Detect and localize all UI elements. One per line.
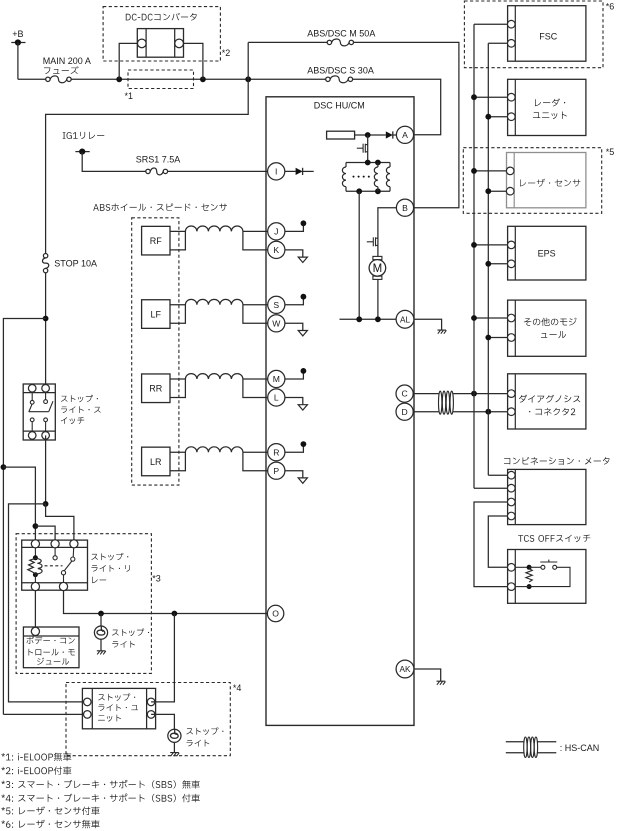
wire other modules pin2 bbox=[488, 337, 507, 339]
svg-text:*1: *1 bbox=[125, 91, 134, 101]
svg-text:M: M bbox=[273, 374, 280, 384]
diagnosis connector 2 box bbox=[508, 374, 586, 429]
stop light switch levers and linkage bbox=[29, 404, 32, 412]
wire unit right pin1 up to O net bbox=[151, 614, 174, 702]
twisted pair symbol HS-CAN bbox=[439, 391, 442, 414]
sensor LR twisted pair coil bbox=[185, 447, 243, 452]
wire motor to AL row bbox=[377, 279, 379, 319]
wire comb meter pin1 from CAN-L bus bbox=[488, 474, 507, 476]
wire other modules pin1 bbox=[474, 317, 508, 319]
internal ground stub after pin K bbox=[276, 250, 303, 257]
pin D bbox=[396, 403, 413, 420]
footnote *2 bbox=[1, 766, 71, 774]
wire comb meter pin2 from CAN-H bus bbox=[474, 487, 508, 489]
wire laser pin1 bbox=[474, 170, 507, 172]
junction dot below switch bbox=[43, 501, 49, 507]
dashed box wheel speed sensors bbox=[132, 218, 179, 485]
internal ground stub after pin L bbox=[276, 398, 303, 405]
junction dot left rail branch bbox=[43, 316, 49, 322]
svg-text:AL: AL bbox=[400, 315, 410, 324]
pin B bbox=[396, 199, 413, 216]
svg-text:MAIN 200 A: MAIN 200 A bbox=[43, 56, 91, 66]
svg-text:K: K bbox=[273, 245, 279, 255]
wire M50A branch up bbox=[247, 42, 249, 79]
mosfet Q1 bbox=[367, 135, 369, 163]
pin W bbox=[268, 315, 285, 332]
junction dot main bus / M50A branch bbox=[245, 76, 251, 82]
sensor RF box bbox=[142, 226, 170, 255]
junction dot outer rail relay coil branch bbox=[1, 464, 7, 470]
wire pin C to twisted pair bbox=[413, 393, 439, 395]
svg-text:AK: AK bbox=[400, 665, 411, 674]
wire pin D to twisted pair bbox=[413, 411, 439, 413]
svg-text:+B: +B bbox=[12, 29, 23, 39]
label combination meter bbox=[504, 457, 609, 465]
svg-text:J: J bbox=[274, 227, 278, 237]
sensor LF box bbox=[142, 300, 170, 329]
junction dot relay pin2 branch bbox=[33, 523, 39, 529]
wire radar pin2 bbox=[488, 116, 507, 118]
footnote *6 bbox=[1, 820, 99, 829]
svg-text:STOP 10A: STOP 10A bbox=[54, 259, 97, 269]
wire unit right pin2 to lamp LP2 bbox=[151, 714, 174, 729]
svg-text:B: B bbox=[402, 203, 408, 213]
wire +B down to main bus bbox=[17, 43, 19, 80]
wire M50A fuse to pin B bbox=[354, 42, 459, 207]
wire switched rail to stop light unit pin1 bbox=[9, 504, 88, 702]
sensor RF twisted pair coil bbox=[185, 226, 243, 231]
svg-text:P: P bbox=[273, 466, 279, 476]
junction dot A row bbox=[365, 132, 371, 138]
internal pull-up stub after pin M bbox=[276, 372, 303, 379]
wire radar pin1 bbox=[474, 96, 508, 98]
dashed box *5 bbox=[463, 148, 601, 214]
wire FSC pin1 bbox=[474, 23, 508, 25]
svg-text:R: R bbox=[273, 447, 279, 457]
svg-text:S: S bbox=[273, 300, 279, 310]
stop light relay K1 box bbox=[22, 540, 88, 590]
wire laser pin2 bbox=[488, 190, 506, 192]
svg-text:M: M bbox=[373, 263, 383, 275]
pin O bbox=[267, 605, 283, 621]
pin M bbox=[268, 370, 285, 387]
svg-text:DSC HU/CM: DSC HU/CM bbox=[314, 101, 365, 111]
body control module box bbox=[23, 627, 79, 668]
svg-text:W: W bbox=[272, 318, 281, 328]
chassis ground below lamp LP1 bbox=[97, 651, 106, 655]
junction dot DC-DC left tap bbox=[116, 76, 122, 82]
bus segment comb meter pin3 to TCS pin2 bbox=[474, 502, 508, 587]
pin A bbox=[396, 126, 413, 143]
relay coil with parallel resistor bbox=[34, 548, 36, 558]
chassis ground below lamp LP2 bbox=[170, 753, 179, 757]
bus segment comb meter pin4 to TCS pin1 bbox=[488, 516, 507, 567]
wire DC-DC converter branch right bbox=[184, 43, 203, 79]
svg-text:*6: *6 bbox=[606, 1, 615, 11]
internal ground stub after pin P bbox=[276, 471, 303, 478]
footnote *4 bbox=[1, 794, 199, 803]
svg-text:C: C bbox=[401, 389, 407, 399]
sensor RF connector loop bbox=[170, 231, 185, 250]
pin R bbox=[268, 444, 285, 461]
diode D2 to pin A bbox=[386, 131, 393, 138]
TCS OFF switch box bbox=[508, 550, 586, 604]
wire rect to diode bbox=[355, 134, 386, 136]
sensor RR twisted pair coil bbox=[185, 374, 243, 379]
wire main bus to ABS/DSC S fuse bbox=[71, 78, 325, 80]
svg-text:*3: *3 bbox=[152, 574, 161, 584]
junction dot CAN-H bus bbox=[471, 391, 477, 397]
sensor RF wires to pins J K bbox=[243, 230, 276, 232]
stop light unit box bbox=[82, 688, 155, 728]
internal diode after pin I bbox=[276, 170, 295, 172]
internal pull-up stub after pin S bbox=[276, 298, 303, 305]
internal ground stub after pin W bbox=[276, 323, 303, 330]
wire relay output to pin O bbox=[64, 590, 276, 613]
pin S bbox=[268, 296, 285, 313]
svg-text:O: O bbox=[272, 609, 279, 619]
sensor LF wires to pins S W bbox=[243, 304, 276, 306]
wire FSC pin2 bbox=[488, 42, 507, 44]
sensor LR wires to pins R P bbox=[243, 451, 276, 453]
mosfet Q2 bbox=[377, 228, 379, 257]
junction dot stop light branch bbox=[98, 611, 104, 617]
fuse ABS/DSC S 30A bbox=[326, 77, 330, 81]
pin P bbox=[268, 462, 285, 479]
radar unit box bbox=[508, 79, 586, 135]
fuse STOP 10A bbox=[43, 254, 47, 258]
wire EPS pin1 bbox=[474, 244, 508, 246]
wire below stop light switch bbox=[45, 435, 47, 504]
laser sensor box (gray) bbox=[507, 153, 586, 208]
svg-text:ABS/DSC M 50A: ABS/DSC M 50A bbox=[307, 29, 375, 39]
svg-text:FSC: FSC bbox=[539, 31, 558, 41]
wire EPS pin2 bbox=[488, 263, 507, 265]
pin I bbox=[268, 163, 285, 180]
footnote *3 bbox=[1, 780, 199, 789]
wire SRS1 fuse to pin I bbox=[168, 170, 277, 172]
ground symbol (open triangle) P bbox=[298, 478, 307, 483]
wire outer rail to relay coil pin1 bbox=[3, 467, 35, 544]
wire IG1 to SRS1 fuse bbox=[82, 152, 146, 172]
internal pull-up stub after pin J bbox=[276, 224, 303, 231]
stop light lamp LP2 bbox=[168, 729, 181, 742]
sensor LR connector loop bbox=[170, 452, 185, 471]
ground symbol (open triangle) K bbox=[298, 257, 307, 262]
pin K bbox=[268, 241, 285, 258]
internal pull-up stub after pin R bbox=[276, 445, 303, 452]
svg-text:RF: RF bbox=[150, 236, 162, 246]
sensor LR box bbox=[142, 447, 170, 476]
pin AK bbox=[396, 660, 414, 678]
pump motor M1 bbox=[373, 256, 382, 259]
TCS push switch bbox=[529, 566, 541, 568]
DSC HU/CM control module box bbox=[266, 97, 414, 726]
solenoid valve bank bbox=[346, 162, 390, 164]
svg-text:A: A bbox=[402, 130, 408, 140]
ellipsis dots in valve bank bbox=[353, 176, 355, 178]
junction dot DC-DC right tap bbox=[200, 76, 206, 82]
IG1 relay tap bbox=[75, 151, 89, 153]
label TCS OFF switch bbox=[518, 535, 590, 543]
dashed box stop light relay *3 bbox=[16, 534, 151, 674]
wire branch to outer left rail bbox=[3, 319, 45, 715]
footnote *1 bbox=[1, 753, 71, 762]
pin L bbox=[268, 389, 285, 406]
wire pin AL to chassis ground bbox=[414, 319, 442, 330]
svg-text:L: L bbox=[274, 393, 279, 403]
svg-text:EPS: EPS bbox=[538, 248, 556, 258]
DC-DC converter component U1 bbox=[137, 29, 183, 58]
FSC module box bbox=[508, 6, 586, 62]
other modules box bbox=[508, 300, 586, 356]
power source +B terminal bbox=[11, 42, 25, 44]
wire CAN-L to diagnosis connector bbox=[453, 411, 507, 413]
relay linkage (dashed) bbox=[45, 565, 63, 567]
pin J bbox=[268, 223, 285, 240]
HS-CAN legend twisted pair bbox=[506, 741, 524, 743]
dashed box DC-DC converter *2 bbox=[103, 7, 220, 61]
svg-text:*5: *5 bbox=[606, 147, 615, 157]
fuse SRS1 7.5A bbox=[146, 169, 150, 173]
pin AL bbox=[396, 310, 414, 328]
ground symbol (open triangle) L bbox=[298, 405, 307, 410]
wire pin B to motor branch bbox=[378, 208, 405, 228]
svg-text:SRS1 7.5A: SRS1 7.5A bbox=[136, 154, 181, 164]
junction dot CAN-L bus bbox=[485, 409, 491, 415]
wire valve bank to AL row bbox=[358, 191, 360, 319]
junction dot stop light unit branch bbox=[172, 611, 178, 617]
label ABS wheel speed sensor bbox=[93, 203, 227, 211]
svg-text:*2: *2 bbox=[222, 48, 231, 58]
dashed box stop light unit *4 bbox=[66, 683, 230, 756]
wire outer rail to stop light unit pin2 bbox=[3, 713, 87, 715]
svg-text:D: D bbox=[401, 407, 407, 417]
sensor LF twisted pair coil bbox=[185, 299, 243, 304]
svg-text:: HS-CAN: : HS-CAN bbox=[560, 743, 600, 753]
wire main bus down to left rail bbox=[46, 79, 249, 253]
wire to relay pin2 bbox=[35, 526, 55, 544]
fuse ABS/DSC M 50A bbox=[248, 41, 327, 43]
dashed option box *1 bbox=[128, 70, 194, 89]
wire DC-DC converter branch left bbox=[119, 43, 137, 79]
dashed box *6 bbox=[464, 1, 603, 68]
sensor RR connector loop bbox=[170, 379, 185, 398]
wire CAN-H to diagnosis connector bbox=[453, 393, 507, 395]
TCS internal resistor bbox=[515, 566, 529, 568]
wire left rail fuse to stop light switch bbox=[45, 273, 47, 389]
sensor RR wires to pins M L bbox=[243, 378, 276, 380]
internal component rectangle near pin A bbox=[327, 131, 355, 139]
wire relay to body control module bbox=[34, 590, 36, 628]
fuse MAIN 200A bbox=[18, 78, 46, 80]
EPS module box bbox=[508, 226, 586, 280]
TCS switch loop to pin2 bbox=[529, 567, 570, 586]
wire pin AK to chassis ground bbox=[414, 669, 441, 681]
svg-text:*4: *4 bbox=[233, 683, 242, 693]
pin C bbox=[396, 385, 413, 402]
sensor LF connector loop bbox=[170, 305, 185, 324]
wire switched to relay pin3 bbox=[46, 504, 74, 544]
svg-text:LR: LR bbox=[150, 457, 162, 467]
ground symbol (open triangle) W bbox=[298, 331, 307, 336]
footnote *5 bbox=[1, 806, 99, 815]
svg-text:LF: LF bbox=[151, 309, 162, 319]
sensor RR box bbox=[142, 374, 170, 403]
relay switch contacts bbox=[54, 548, 56, 556]
combination meter box bbox=[508, 469, 586, 524]
wire S30A fuse to pin A bbox=[353, 79, 441, 135]
svg-text:I: I bbox=[275, 166, 277, 176]
svg-text:ABS/DSC S 30A: ABS/DSC S 30A bbox=[307, 66, 374, 76]
svg-text:RR: RR bbox=[149, 384, 162, 394]
CAN bus vertical right (L) bbox=[487, 43, 489, 475]
stop light lamp LP1 bbox=[100, 614, 102, 627]
stop light switch SW1 bbox=[23, 384, 55, 440]
AL row internal wire bbox=[340, 318, 397, 320]
CAN bus vertical left (H) bbox=[473, 24, 475, 488]
